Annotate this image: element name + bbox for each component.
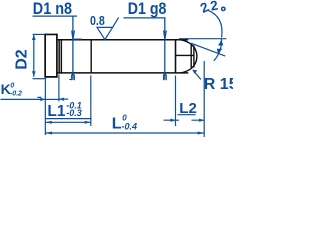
- svg-text:D1 n8: D1 n8: [33, 0, 72, 18]
- ext at step (L1 right): [90, 76, 92, 127]
- end cap: chamfer edges and spherical tip R15: [176, 40, 197, 73]
- angle arc: [214, 39, 222, 61]
- svg-text:-0.2: -0.2: [10, 91, 22, 98]
- step line between D1 n8 and D1 g8 zones: [90, 40, 92, 73]
- leader to text: [208, 10, 222, 37]
- shaft body bottom edge: [57, 72, 188, 74]
- ext at flange right / groove: [58, 75, 60, 102]
- chamfer extension line: [191, 43, 225, 56]
- horizontal extension line: [179, 38, 226, 40]
- svg-text:D1 g8: D1 g8: [128, 0, 167, 18]
- svg-text:0.8: 0.8: [90, 13, 105, 28]
- extension lines: [45, 61, 204, 137]
- ext at flange left: [44, 79, 46, 135]
- groove (undercut) walls: [59, 39, 61, 74]
- svg-text:R 15: R 15: [204, 76, 233, 93]
- svg-text:L1: L1: [47, 103, 65, 120]
- svg-text:0: 0: [10, 83, 14, 90]
- 22 degree chamfer angle dimension: [198, 0, 225, 16]
- svg-text:-0.3: -0.3: [66, 108, 82, 118]
- svg-text:L: L: [112, 116, 122, 133]
- svg-text:-0.4: -0.4: [122, 122, 138, 132]
- flange (collar, diameter D2): [45, 34, 57, 78]
- ext at shoulder (L2 left): [175, 76, 177, 127]
- D1 n8 diameter dimension line and arrows: [72, 37, 74, 80]
- D2 dimension: [33, 34, 47, 78]
- D1 g8 diameter dimension line and arrows: [164, 37, 166, 80]
- ext at tip (L/L2 right): [203, 61, 205, 137]
- shoulder at rounded end: [175, 40, 177, 73]
- shaft body top edge: [57, 39, 188, 41]
- svg-text:D2: D2: [14, 49, 31, 70]
